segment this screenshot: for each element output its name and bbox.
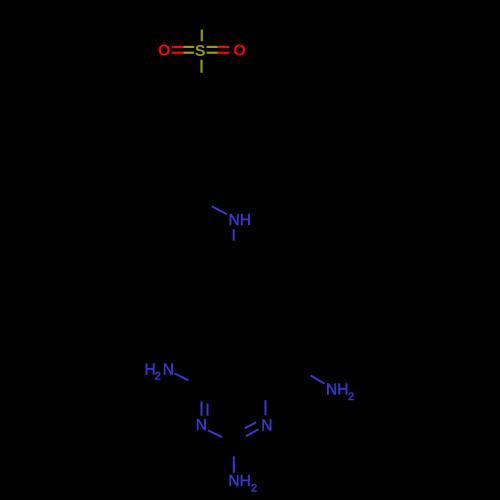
wire: S-C(aryl) bond lower (carbon) half, black (200, 73, 202, 88)
wire: S=O right double bond upper line, O half red (218, 46, 230, 48)
wire: C4=N1 double bond main line carbon half, black (201, 387, 203, 401)
svg-text:NH: NH (229, 212, 251, 229)
wire: CH2-NH2 bond nitrogen half, blue (311, 376, 325, 384)
wire: C6-N3 bond carbon half, black (265, 387, 267, 400)
wire: S=O right double bond lower line, S half olive (207, 52, 218, 54)
benzene ring inner double bond lines, black (174, 94, 229, 157)
svg-text:O: O (158, 43, 170, 60)
wire: S=O left double bond lower line, S half olive (183, 52, 194, 54)
svg-text:S: S (195, 43, 206, 60)
wire: S-C(aryl) bond upper (sulfur) half, olive (200, 60, 202, 73)
wire: C6-CH2 bond, black invisible (266, 368, 297, 388)
wire: C2=N3 double bond main line nitrogen half, blue (246, 429, 259, 436)
wire: NH-CH2 bond carbon half, black (233, 241, 235, 258)
wire: C4=N1 double bond inner line carbon half, black (207, 392, 209, 404)
chain carbon bonds to lower ring, black invisible (214, 258, 234, 369)
wire: C2-NH2 bond carbon half, black (233, 444, 235, 457)
wire: H2N-C4 bond carbon half, black (189, 380, 202, 387)
wire: S=O left double bond upper line, S half olive (183, 46, 194, 48)
wire: CH2-NH bond carbon half, black (187, 192, 212, 207)
wire: C4=N1 double bond main line nitrogen half, blue (201, 401, 203, 415)
wire: S=O left double bond lower line, O half red (172, 52, 184, 54)
wire: N1-C2 bond carbon half, black (222, 437, 234, 444)
wire: CH2-NH2 bond carbon half, black (297, 368, 311, 376)
wire: CH2-NH bond nitrogen half, blue (212, 206, 227, 214)
svg-text:N: N (261, 417, 272, 434)
wire: H2N-C4 bond nitrogen half, blue (174, 373, 188, 380)
wire: N1-C2 bond nitrogen half, blue (208, 430, 222, 437)
wire: S=O right double bond upper line, S half olive (207, 46, 218, 48)
wire: C2=N3 double bond main line carbon half, black (234, 436, 246, 444)
svg-text:N: N (196, 417, 207, 434)
wire: methyl C-S bond upper (carbon) half, black (201, 14, 203, 30)
wire: methyl C-S bond lower (sulfur) half, olive (201, 30, 203, 42)
wire: C6-N3 bond nitrogen half, blue (265, 400, 267, 415)
wire: NH-CH2 bond nitrogen half, blue (233, 229, 235, 241)
benzene ring (carbon bonds, black invisible) (169, 88, 235, 163)
svg-text:2: 2 (251, 483, 257, 495)
wire: S=O left double bond upper line, O half red (172, 46, 184, 48)
svg-text:2: 2 (348, 391, 354, 403)
pyrimidine ring carbon-only bonds, black invisible (201, 369, 265, 388)
wire: C2=N3 double bond inner line nitrogen half, blue (245, 422, 256, 428)
svg-text:O: O (233, 43, 245, 60)
svg-text:N: N (163, 361, 174, 378)
svg-text:2: 2 (155, 371, 161, 383)
wire: C2-NH2 bond nitrogen half, blue (233, 456, 235, 473)
wire: C4=N1 double bond inner line nitrogen half, blue (207, 404, 209, 416)
svg-text:NH: NH (326, 382, 348, 399)
wire: aryl-CH2 bond, black (187, 163, 201, 192)
svg-text:NH: NH (228, 473, 250, 490)
wire: S=O right double bond lower line, O half red (218, 52, 230, 54)
wire: C2=N3 double bond inner line carbon half, black (234, 428, 245, 435)
